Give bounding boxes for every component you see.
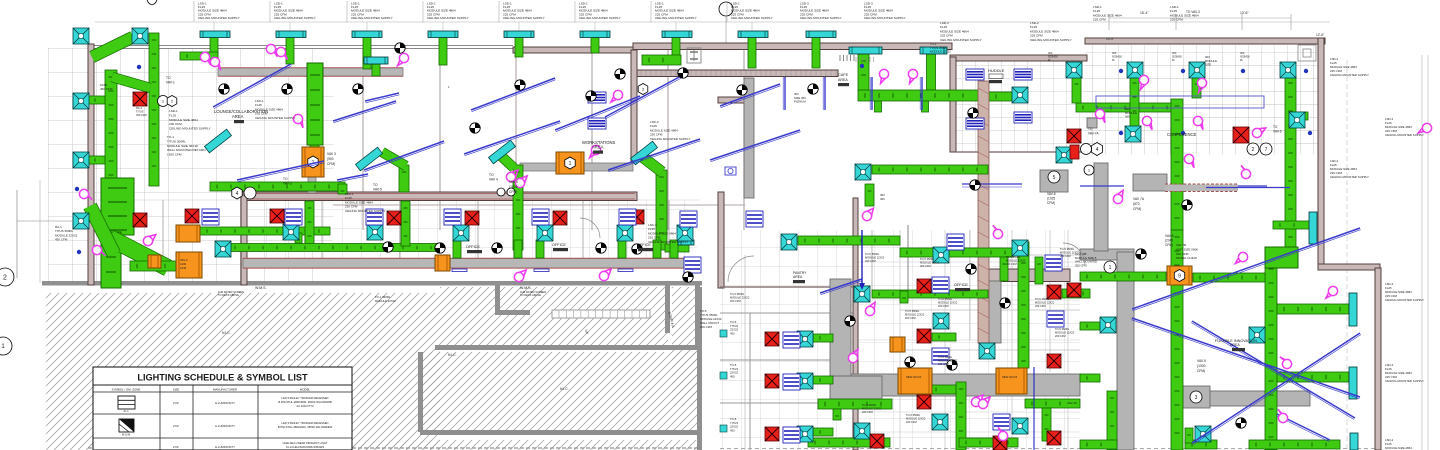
svg-text:225 CFM: 225 CFM (1093, 18, 1106, 22)
svg-text:CFM): CFM) (1165, 243, 1173, 247)
svg-text:(1025: (1025 (1047, 197, 1055, 201)
svg-text:450: 450 (730, 374, 735, 378)
svg-text:TO VAV-3: TO VAV-3 (1186, 10, 1200, 14)
svg-text:TO-5 350RL: TO-5 350RL (920, 257, 935, 261)
svg-text:LED STANLEY TROFFER RECESSED: LED STANLEY TROFFER RECESSED (282, 421, 329, 425)
svg-text:CHELSEA LINEAR PENDANT LIGHT: CHELSEA LINEAR PENDANT LIGHT (282, 441, 327, 445)
svg-text:TO-5 350RL: TO-5 350RL (905, 309, 920, 313)
svg-text:450: 450 (730, 428, 735, 432)
svg-text:MODULE SIZE 36X18: MODULE SIZE 36X18 (167, 144, 198, 148)
svg-text:TO-5 350RL: TO-5 350RL (938, 297, 953, 301)
svg-text:AREA: AREA (1230, 343, 1240, 347)
svg-text:200 CFM: 200 CFM (905, 316, 916, 320)
svg-text:12'-6": 12'-6" (1316, 33, 1324, 37)
svg-text:CAFE: CAFE (838, 73, 849, 77)
svg-text:MODULE 22X22: MODULE 22X22 (906, 417, 926, 421)
svg-text:200 CFM: 200 CFM (1035, 304, 1046, 308)
svg-text:CFM): CFM) (1133, 207, 1141, 211)
svg-text:5: 5 (1053, 175, 1056, 181)
svg-text:LSD-1: LSD-1 (169, 109, 178, 113)
svg-text:(1300: (1300 (1197, 364, 1206, 368)
svg-text:TO: TO (1088, 127, 1093, 131)
svg-text:H-LUMINOSITY: H-LUMINOSITY (215, 401, 235, 405)
svg-text:VAV-10: VAV-10 (1067, 401, 1077, 405)
svg-text:VAV 3: VAV 3 (327, 152, 336, 156)
svg-text:250 CFM: 250 CFM (1075, 263, 1087, 267)
svg-text:VAV-9: VAV-9 (1197, 359, 1206, 363)
svg-text:TO: TO (166, 76, 171, 80)
svg-text:200 CFM: 200 CFM (906, 420, 917, 424)
svg-text:B.PNLSTHL-38W/4000- 3500K WH-D: B.PNLSTHL-38W/4000- 3500K WH-DMWEW (278, 425, 333, 429)
svg-text:450: 450 (1125, 115, 1130, 119)
svg-text:200 CFM: 200 CFM (730, 299, 741, 303)
svg-text:13'-6": 13'-6" (1240, 11, 1249, 15)
svg-text:CFM): CFM) (1047, 201, 1055, 205)
svg-text:CFM): CFM) (509, 190, 517, 194)
svg-text:15'-0": 15'-0" (1106, 37, 1114, 41)
svg-text:CEILING MOUNTED SUPPLY: CEILING MOUNTED SUPPLY (427, 16, 469, 20)
svg-text:LED STANLEY TROFFER RECESSED: LED STANLEY TROFFER RECESSED (282, 396, 329, 400)
svg-text:MODULE 22X22: MODULE 22X22 (1006, 259, 1026, 263)
svg-text:TO-5 350RL: TO-5 350RL (1035, 297, 1050, 301)
svg-text:CEILING MOUNTED SUPPLY: CEILING MOUNTED SUPPLY (503, 16, 545, 20)
svg-text:CEILING MOUNTED SUPPLY: CEILING MOUNTED SUPPLY (1330, 73, 1369, 77)
svg-text:CONFERENCE: CONFERENCE (1167, 132, 1197, 137)
svg-text:VAV-5: VAV-5 (373, 188, 382, 192)
svg-text:CEILING MOUNTED SUPPLY: CEILING MOUNTED SUPPLY (255, 116, 295, 120)
svg-text:N.I.C.: N.I.C. (222, 331, 231, 335)
svg-text:CFM): CFM) (327, 162, 335, 166)
svg-text:450 CFM: 450 CFM (100, 87, 113, 91)
svg-text:TO: TO (1273, 125, 1278, 129)
svg-text:TO-5 350RL: TO-5 350RL (1060, 247, 1075, 251)
svg-text:W-13.M: W-13.M (122, 434, 130, 437)
svg-text:CEILING MOUNTED SUPPLY: CEILING MOUNTED SUPPLY (731, 16, 773, 20)
svg-text:HUDDLE: HUDDLE (988, 68, 1005, 73)
svg-text:CEILING MOUNTED SUPPLY: CEILING MOUNTED SUPPLY (274, 16, 316, 20)
svg-text:NEW VAV-02: NEW VAV-02 (906, 375, 922, 379)
svg-text:N.I.C.: N.I.C. (448, 353, 457, 357)
svg-text:VAV-3: VAV-3 (283, 182, 292, 186)
svg-text:CFM): CFM) (1197, 369, 1205, 373)
svg-text:MODEL CHILW: MODEL CHILW (1176, 256, 1197, 260)
svg-text:CEILING MOUNTED SUPPLY: CEILING MOUNTED SUPPLY (940, 38, 982, 42)
svg-text:N.I.C.: N.I.C. (560, 387, 569, 391)
svg-text:AREA: AREA (838, 78, 848, 82)
svg-text:TITUS 300RL: TITUS 300RL (167, 139, 186, 143)
svg-text:200 CFM: 200 CFM (1006, 262, 1017, 266)
svg-text:4: 4 (1096, 147, 1099, 153)
svg-text:MODULE 22X22: MODULE 22X22 (865, 256, 885, 260)
svg-text:VAV-7A: VAV-7A (1088, 131, 1100, 135)
svg-text:OFFICE: OFFICE (954, 283, 968, 287)
svg-text:AREA: AREA (592, 145, 604, 150)
svg-text:FL25: FL25 (169, 113, 176, 117)
svg-text:CEILING MOUNTED SUPPLY: CEILING MOUNTED SUPPLY (648, 240, 688, 244)
svg-text:W.M.S.: W.M.S. (520, 286, 532, 290)
svg-text:MODULE 22X22: MODULE 22X22 (1055, 331, 1075, 335)
svg-text:225 CFM: 225 CFM (1170, 18, 1183, 22)
svg-text:1: 1 (569, 161, 572, 167)
svg-text:W.M.S.: W.M.S. (255, 286, 267, 290)
svg-text:CEILING MOUNTED SUPPLY: CEILING MOUNTED SUPPLY (1385, 133, 1424, 137)
svg-text:AC 100xCTTV: AC 100xCTTV (296, 404, 314, 408)
svg-text:TO: TO (283, 177, 288, 181)
svg-text:CEILING MOUNTED SUPPLY: CEILING MOUNTED SUPPLY (169, 127, 211, 131)
svg-text:(870: (870 (1133, 202, 1140, 206)
svg-text:MODULE 22X22: MODULE 22X22 (938, 359, 958, 363)
svg-text:9: 9 (1178, 273, 1181, 279)
svg-text:AL-1: AL-1 (123, 410, 129, 413)
svg-text:TO DECK ABOVE: TO DECK ABOVE (218, 293, 239, 297)
svg-text:S.LLCLELV4200/20/8L/DMAWS: S.LLCLELV4200/20/8L/DMAWS (286, 445, 324, 449)
svg-text:MODULE 22X22: MODULE 22X22 (930, 50, 951, 54)
svg-text:450: 450 (880, 197, 885, 201)
svg-text:TO-5 350RL: TO-5 350RL (1055, 327, 1070, 331)
svg-text:200 CFM: 200 CFM (1055, 334, 1066, 338)
svg-text:200 CFM: 200 CFM (920, 264, 931, 268)
svg-text:CEILING MOUNTED SUPPLY: CEILING MOUNTED SUPPLY (655, 16, 697, 20)
svg-text:MODULE 22X22: MODULE 22X22 (375, 299, 396, 303)
svg-text:TO-1: TO-1 (167, 135, 174, 139)
svg-text:MODULE SIZE 4864: MODULE SIZE 4864 (169, 118, 198, 122)
svg-text:TO-5 350RL: TO-5 350RL (938, 355, 953, 359)
svg-text:MODULE 22X22: MODULE 22X22 (905, 313, 925, 317)
svg-text:CEILING MOUNTED SUPPLY: CEILING MOUNTED SUPPLY (800, 16, 842, 20)
svg-text:LIGHTING SCHEDULE & SYMBOL LIS: LIGHTING SCHEDULE & SYMBOL LIST (137, 373, 308, 383)
svg-text:VAV-6: VAV-6 (1047, 192, 1056, 196)
svg-text:MODULE 22X22: MODULE 22X22 (730, 296, 750, 300)
svg-text:VAV 4: VAV 4 (509, 180, 518, 184)
svg-text:CEILING MOUNTED SUPPLY: CEILING MOUNTED SUPPLY (1030, 38, 1072, 42)
svg-text:OFFICE: OFFICE (466, 245, 480, 249)
svg-text:TO: TO (489, 173, 494, 177)
svg-text:200 CFM: 200 CFM (700, 325, 712, 329)
svg-text:TO-5 350RL: TO-5 350RL (906, 413, 921, 417)
svg-text:CEILING MOUNTED SUPPLY: CEILING MOUNTED SUPPLY (345, 209, 385, 213)
svg-text:2'X2': 2'X2' (173, 401, 180, 405)
svg-text:15'-4": 15'-4" (1140, 11, 1149, 15)
svg-text:1: 1 (1109, 265, 1112, 271)
svg-text:UNIT SIZE 0606: UNIT SIZE 0606 (1176, 247, 1198, 251)
svg-text:WALL MOUNTED RETURN: WALL MOUNTED RETURN (167, 148, 205, 152)
svg-text:B.PNLSTHL-28W/4000- 3500K WH-D: B.PNLSTHL-28W/4000- 3500K WH-DMAMB (278, 400, 332, 404)
svg-text:VAV 7A: VAV 7A (1133, 197, 1145, 201)
svg-text:AREA: AREA (793, 275, 803, 279)
svg-text:450: 450 (730, 331, 735, 335)
svg-text:1925 CFM: 1925 CFM (167, 153, 182, 157)
svg-text:PLENUM: PLENUM (794, 100, 806, 104)
svg-text:MODULE 22X22: MODULE 22X22 (920, 261, 940, 265)
svg-text:H-LUMINOSITY: H-LUMINOSITY (215, 445, 235, 449)
svg-text:(2345: (2345 (1165, 239, 1173, 243)
svg-text:NEW VAV-03: NEW VAV-03 (1002, 375, 1018, 379)
svg-text:CEILING MOUNTED SUPPLY: CEILING MOUNTED SUPPLY (864, 16, 906, 20)
svg-text:4: 4 (236, 191, 239, 197)
svg-text:CEILING MOUNTED SUPPLY: CEILING MOUNTED SUPPLY (198, 16, 240, 20)
svg-text:200 CFM: 200 CFM (938, 304, 949, 308)
svg-text:MODULE 22X22: MODULE 22X22 (1060, 251, 1080, 255)
svg-text:MODEL: MODEL (300, 387, 311, 391)
svg-text:AREA: AREA (232, 114, 244, 119)
svg-text:TO DECK ABOVE: TO DECK ABOVE (520, 293, 541, 297)
svg-text:(900: (900 (327, 157, 334, 161)
svg-text:TO-5 350RL: TO-5 350RL (862, 403, 877, 407)
svg-text:230 CFM: 230 CFM (169, 122, 182, 126)
svg-text:VAV 7B: VAV 7B (1176, 243, 1186, 247)
svg-text:2'X4': 2'X4' (173, 445, 180, 449)
svg-text:200 CFM: 200 CFM (1060, 254, 1071, 258)
svg-text:2: 2 (1252, 147, 1255, 153)
svg-text:CEILING MOUNTED SUPPLY: CEILING MOUNTED SUPPLY (1385, 298, 1424, 302)
svg-text:2'X2': 2'X2' (173, 424, 180, 428)
svg-text:SIZE: SIZE (1205, 63, 1211, 67)
svg-text:OFFICE: OFFICE (552, 243, 566, 247)
svg-text:CEILING MOUNTED SUPPLY: CEILING MOUNTED SUPPLY (1385, 379, 1424, 383)
svg-text:MODULE 22X22: MODULE 22X22 (1035, 301, 1055, 305)
svg-text:7: 7 (1265, 147, 1268, 153)
svg-text:(1025: (1025 (509, 185, 518, 189)
svg-text:200 CFM: 200 CFM (865, 259, 876, 263)
svg-text:VAV-6: VAV-6 (1273, 129, 1282, 133)
svg-text:TO-5 350RL: TO-5 350RL (730, 292, 745, 296)
svg-text:MANUFACTURER: MANUFACTURER (213, 387, 237, 391)
svg-text:500 CFM: 500 CFM (1176, 252, 1189, 256)
svg-text:SYMBOL / GM. ZONE: SYMBOL / GM. ZONE (112, 387, 141, 391)
svg-text:MODULE 22X22: MODULE 22X22 (938, 301, 958, 305)
svg-text:CFM: CFM (180, 266, 187, 270)
svg-text:TO: TO (373, 183, 378, 187)
svg-text:VAV 4: VAV 4 (489, 178, 498, 182)
svg-text:200 CFM: 200 CFM (938, 362, 949, 366)
svg-text:VAV-8: VAV-8 (1165, 234, 1174, 238)
svg-text:CEILING MOUNTED SUPPLY: CEILING MOUNTED SUPPLY (650, 137, 690, 141)
svg-text:SIZE: SIZE (173, 387, 179, 391)
svg-text:TO-5 350RL: TO-5 350RL (865, 252, 880, 256)
svg-text:RA-1: RA-1 (136, 106, 142, 110)
svg-text:CEILING MOUNTED SUPPLY: CEILING MOUNTED SUPPLY (579, 16, 621, 20)
svg-text:CEILING MOUNTED SUPPLY: CEILING MOUNTED SUPPLY (351, 16, 393, 20)
svg-text:CEILING MOUNTED SUPPLY: CEILING MOUNTED SUPPLY (1330, 175, 1369, 179)
svg-text:OFFICE: OFFICE (637, 243, 651, 247)
svg-text:MODULE 22X22: MODULE 22X22 (862, 407, 882, 411)
svg-text:450 CFM: 450 CFM (136, 113, 147, 117)
svg-text:TO-5 350RL: TO-5 350RL (1006, 255, 1021, 259)
svg-text:450 CFM: 450 CFM (55, 238, 68, 242)
svg-text:TITUS: TITUS (136, 110, 144, 114)
svg-text:2: 2 (3, 275, 7, 282)
svg-text:3: 3 (1195, 395, 1198, 401)
svg-text:H-LUMINOSITY: H-LUMINOSITY (215, 424, 235, 428)
svg-text:200 CFM: 200 CFM (862, 410, 873, 414)
svg-text:VAV-1: VAV-1 (166, 81, 175, 85)
